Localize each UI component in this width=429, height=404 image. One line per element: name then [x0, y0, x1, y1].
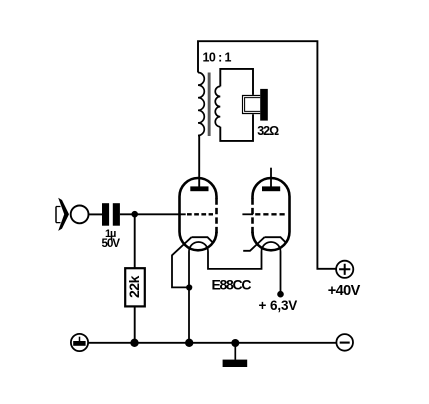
svg-text:6,3V: 6,3V — [270, 298, 297, 313]
svg-text:10 : 1: 10 : 1 — [203, 51, 232, 65]
svg-text:E88CC: E88CC — [212, 276, 252, 292]
svg-text:22k: 22k — [126, 275, 142, 298]
svg-text:+40V: +40V — [328, 283, 361, 299]
svg-text:32Ω: 32Ω — [257, 124, 279, 138]
svg-text:50V: 50V — [102, 238, 121, 250]
svg-text:+: + — [259, 298, 267, 313]
